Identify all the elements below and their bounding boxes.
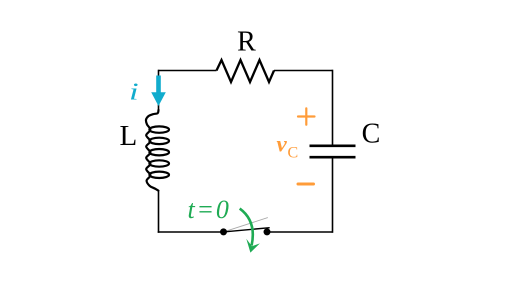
wire right lower bbox=[332, 157, 334, 233]
svg-text:C: C bbox=[288, 145, 299, 162]
inductor L1 coil bbox=[146, 110, 159, 191]
wire right upper bbox=[332, 70, 334, 146]
capacitor C1 top plate bbox=[310, 145, 356, 148]
minus sign polarity bbox=[298, 183, 314, 186]
switch closing arrow bbox=[240, 209, 253, 246]
wire top right segment bbox=[274, 70, 333, 72]
wire left upper bbox=[158, 70, 160, 111]
switch blade ghost open position bbox=[224, 218, 268, 232]
capacitor C1 bottom plate bbox=[310, 156, 356, 159]
wire left lower bbox=[158, 190, 160, 233]
resistor R1 zigzag bbox=[217, 60, 275, 82]
svg-text:C: C bbox=[362, 119, 381, 150]
wire bottom left segment bbox=[158, 231, 224, 233]
wire bottom right segment bbox=[267, 231, 333, 233]
switch node left bbox=[220, 228, 227, 235]
svg-text:v: v bbox=[277, 132, 288, 157]
current arrow i bbox=[156, 76, 161, 95]
plus sign polarity bbox=[298, 108, 315, 124]
switch SW1 blade bbox=[224, 228, 270, 232]
svg-text:t=0: t=0 bbox=[188, 195, 231, 224]
svg-text:L: L bbox=[120, 120, 138, 152]
wire top left segment bbox=[159, 70, 217, 72]
svg-text:i: i bbox=[129, 79, 139, 105]
svg-text:R: R bbox=[237, 27, 256, 58]
switch node right bbox=[264, 228, 271, 235]
